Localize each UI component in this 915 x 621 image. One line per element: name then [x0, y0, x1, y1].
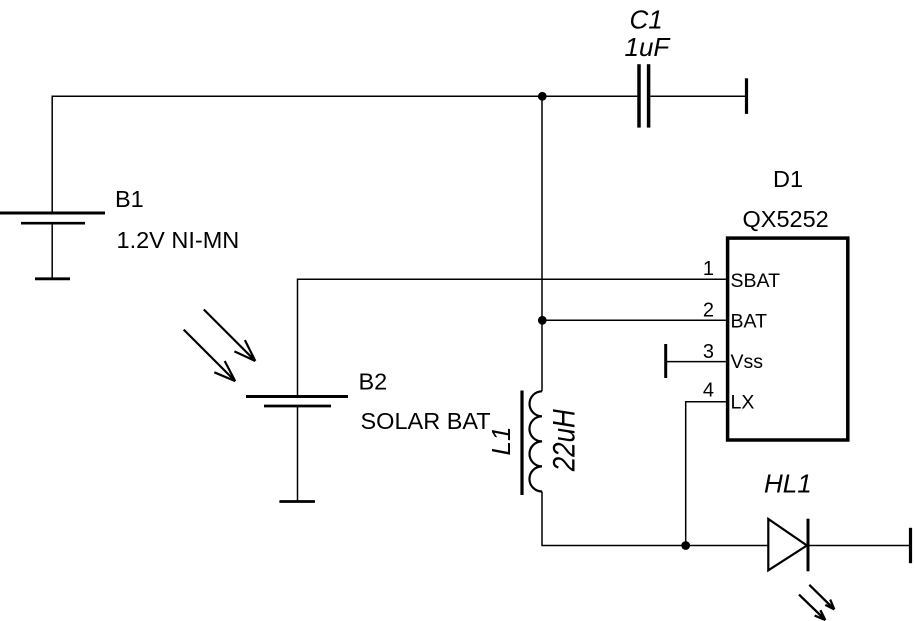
svg-text:Vss: Vss — [731, 351, 764, 373]
svg-text:SBAT: SBAT — [731, 270, 781, 292]
svg-text:B2: B2 — [359, 369, 388, 395]
svg-text:HL1: HL1 — [764, 469, 812, 499]
svg-text:D1: D1 — [773, 166, 803, 192]
svg-text:SOLAR BAT: SOLAR BAT — [361, 408, 491, 434]
svg-text:1: 1 — [703, 258, 714, 280]
svg-text:C1: C1 — [630, 4, 663, 34]
svg-text:22uH: 22uH — [547, 409, 582, 472]
svg-text:1.2V NI-MN: 1.2V NI-MN — [117, 227, 240, 253]
svg-text:2: 2 — [703, 300, 714, 322]
svg-text:B1: B1 — [115, 186, 144, 212]
svg-text:4: 4 — [703, 380, 714, 402]
svg-text:3: 3 — [703, 341, 714, 363]
svg-text:BAT: BAT — [731, 311, 768, 333]
svg-text:L1: L1 — [486, 427, 516, 456]
svg-text:LX: LX — [731, 392, 755, 414]
svg-text:1uF: 1uF — [625, 32, 672, 62]
svg-text:QX5252: QX5252 — [743, 206, 829, 232]
